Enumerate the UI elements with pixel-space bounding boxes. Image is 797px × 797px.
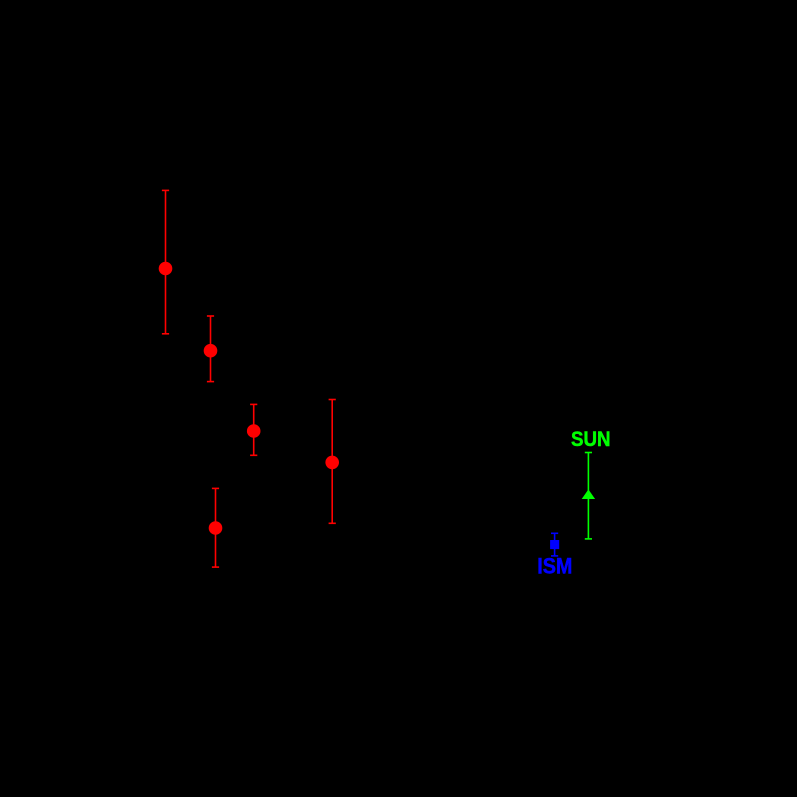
SUN triangle marker — [582, 489, 595, 499]
svg-text:SUN: SUN — [571, 427, 611, 451]
data point 1 — [159, 262, 173, 276]
error bar point 1 — [162, 190, 169, 333]
error bar point 2 — [207, 316, 214, 382]
ISM square marker — [550, 540, 559, 549]
data point 2 — [204, 344, 218, 358]
error bar point 3 — [250, 404, 257, 455]
data point 5 — [209, 521, 223, 535]
SUN error bar — [585, 453, 592, 539]
data point 4 — [325, 456, 339, 470]
error bar point 4 — [329, 400, 336, 524]
data point 3 — [247, 424, 261, 438]
error bar point 5 — [212, 488, 219, 567]
svg-text:ISM: ISM — [537, 554, 572, 579]
ISM error bar — [551, 533, 558, 556]
